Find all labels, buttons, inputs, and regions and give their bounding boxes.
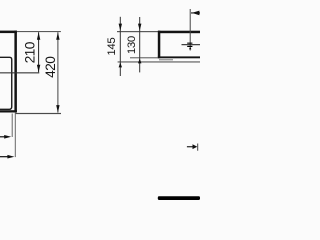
arrowhead 130 bottom (pointing up) bbox=[138, 58, 141, 63]
extension line mid (210 reference) bbox=[0, 72, 39, 73]
side view: lowest lip line (145 reference) bbox=[118, 61, 200, 62]
top right dimension arrow head (pointing left) bbox=[192, 11, 200, 16]
basin top-view outer outline right edge bbox=[14, 31, 17, 113]
arrowhead 420 top bbox=[56, 32, 59, 40]
side view: basin left edge bbox=[158, 31, 161, 59]
mid right extension stub bbox=[197, 144, 198, 151]
dimension line 420 bbox=[57, 32, 58, 112]
extension line vertical B (outer edge projection) bbox=[15, 113, 16, 158]
dimension arrow 1 head bbox=[4, 135, 11, 139]
basin top-view outer outline top edge bbox=[0, 31, 17, 33]
svg-text:145: 145 bbox=[106, 38, 118, 56]
top right dimension arrow shaft bbox=[191, 12, 200, 13]
arrowhead 210 bottom bbox=[37, 65, 40, 73]
extension line bottom (420 reference) bbox=[15, 113, 61, 114]
side view: basin top edge bbox=[158, 31, 200, 34]
arrowhead 210 top bbox=[37, 32, 40, 40]
svg-text:210: 210 bbox=[23, 41, 38, 63]
side view: basin bottom edge bbox=[158, 56, 200, 58]
extension line vertical A (inner edge projection) bbox=[12, 114, 13, 138]
tap hole small arrow bbox=[189, 47, 191, 49]
svg-text:420: 420 bbox=[43, 56, 58, 78]
basin top-view inner bowl edge bbox=[0, 57, 12, 109]
extension line top (from rim to dimension arrows) bbox=[17, 31, 61, 32]
basin top-view outer outline bottom edge bbox=[0, 110, 17, 112]
dimension line 130 bbox=[139, 17, 140, 72]
arrowhead 130 top (pointing down) bbox=[138, 24, 141, 31]
mid right dimension arrow shaft bbox=[187, 146, 194, 147]
tap hole centerline horizontal bbox=[182, 44, 201, 45]
dimension line 210 bbox=[38, 32, 39, 72]
side view: extension line top left bbox=[117, 31, 158, 32]
dimension line 145 bbox=[120, 17, 121, 76]
svg-text:130: 130 bbox=[126, 36, 138, 54]
dimension arrow 2 (to outer edge) shaft bbox=[0, 156, 8, 157]
side view: under-edge shadow line bbox=[159, 59, 173, 60]
arrowhead 420 bottom bbox=[56, 105, 59, 113]
bottom logo bar bbox=[158, 196, 200, 200]
tap hole centerline vertical bbox=[190, 9, 191, 51]
tap hole lower edge bar bbox=[187, 46, 192, 47]
arrowhead 145 bottom (pointing up) bbox=[119, 62, 122, 67]
side view: extension line of bottom edge (130 reference) bbox=[130, 57, 158, 58]
dimension arrow 1 (to inner edge) shaft bbox=[0, 136, 5, 137]
arrowhead 145 top (pointing down) bbox=[119, 24, 122, 31]
tap hole upper edge bar bbox=[187, 43, 192, 44]
dimension arrow 2 head bbox=[7, 155, 14, 159]
mid right dimension arrow head (pointing right) bbox=[193, 144, 198, 149]
